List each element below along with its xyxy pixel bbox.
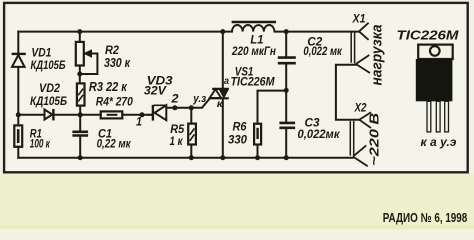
resistor R5 — [188, 124, 196, 145]
capacitor C3 — [279, 123, 295, 128]
wire R6 feed — [258, 91, 287, 124]
potentiometer R2 — [76, 42, 92, 66]
svg-text:330: 330 — [228, 133, 247, 147]
diode VD2 — [45, 109, 54, 120]
svg-text:VD2: VD2 — [39, 81, 60, 95]
svg-text:32V: 32V — [144, 84, 167, 98]
svg-text:0,022 мк: 0,022 мк — [303, 44, 342, 58]
wire top rail right section — [275, 31, 359, 33]
wire C2 to C3 column — [285, 64, 287, 122]
wire left column R1 to bottom rail — [17, 147, 19, 158]
package lead anode — [436, 101, 440, 132]
mains twin line — [350, 121, 353, 156]
junction top rail triac — [220, 29, 225, 34]
wire R5 drop — [190, 108, 192, 158]
junction middle rail left — [16, 112, 21, 117]
svg-text:к: к — [217, 98, 224, 110]
capacitor C1 — [72, 132, 88, 136]
junction bottom rail R5 — [189, 155, 194, 160]
svg-text:1 к: 1 к — [170, 134, 184, 148]
junction top rail C2 — [284, 29, 289, 34]
svg-text:330 к: 330 к — [104, 56, 131, 70]
svg-text:к а у.э: к а у.э — [421, 135, 457, 149]
wire R2 bottom to R3 — [79, 66, 81, 84]
svg-text:КД105Б: КД105Б — [31, 58, 66, 72]
label ~220 В — [367, 112, 382, 166]
svg-text:TIC226M: TIC226M — [397, 27, 460, 42]
wire R2 top lead — [79, 32, 81, 42]
wire left column upper — [17, 32, 19, 53]
wire R3 to middle rail — [79, 106, 81, 115]
capacitor C2 — [278, 58, 296, 64]
wire triac cathode — [222, 98, 224, 157]
resistor R6 — [254, 124, 261, 145]
svg-text:~220 В: ~220 В — [367, 112, 382, 166]
resistor R1 — [14, 125, 22, 146]
svg-text:РАДИО № 6, 1998: РАДИО № 6, 1998 — [383, 210, 468, 225]
svg-text:1: 1 — [136, 115, 142, 129]
label нагрузка — [370, 25, 386, 86]
package lead cathode — [427, 101, 431, 132]
svg-text:100 к: 100 к — [30, 137, 51, 151]
connector X2 — [359, 112, 371, 128]
wire load bracket — [336, 65, 359, 120]
wire C3 to bottom rail — [285, 129, 287, 158]
svg-text:a: a — [224, 75, 229, 87]
node 1 dot — [140, 112, 145, 117]
resistor R4 — [101, 111, 123, 118]
wire VD3 to gate junction — [166, 99, 209, 108]
wire top rail left section — [18, 31, 232, 33]
wire R2 wiper return — [80, 54, 98, 75]
svg-text:у.з: у.з — [192, 93, 206, 105]
svg-text:0,022мк: 0,022мк — [298, 127, 341, 141]
junction bottom rail C1 — [78, 155, 83, 160]
svg-text:КД105Б: КД105Б — [30, 94, 67, 108]
wire R6 to bottom rail — [257, 145, 259, 158]
connector X1 — [359, 23, 369, 40]
junction bottom rail cathode — [220, 155, 225, 160]
svg-text:0,22 мк: 0,22 мк — [97, 137, 132, 151]
inductor L1 — [232, 22, 276, 32]
svg-text:R6: R6 — [233, 120, 247, 134]
node 2 dot — [172, 105, 177, 110]
svg-text:нагрузка: нагрузка — [370, 25, 386, 86]
junction below C2 — [284, 88, 289, 93]
diac VD3 — [146, 105, 166, 121]
junction gate node — [189, 105, 194, 110]
svg-text:X2: X2 — [354, 100, 367, 114]
wire middle rail VD2 to R4 — [54, 114, 100, 116]
svg-text:TIC226M: TIC226M — [231, 74, 276, 88]
wire C2 column top — [285, 32, 287, 57]
junction middle rail C1 — [78, 112, 83, 117]
junction top rail R2 — [77, 29, 82, 34]
wire bottom rail — [18, 157, 352, 159]
wire left column VD1 to middle — [17, 67, 19, 126]
svg-text:X1: X1 — [352, 11, 366, 25]
junction wiper return — [77, 72, 82, 77]
wire C1 leads — [79, 115, 81, 158]
svg-text:R3 22 к: R3 22 к — [89, 80, 128, 94]
diode VD1 — [12, 54, 26, 67]
connector load fork — [356, 55, 370, 73]
junction bottom rail C3 — [284, 155, 289, 160]
connector mains fork — [353, 145, 368, 166]
package body — [416, 59, 453, 101]
svg-text:2: 2 — [170, 92, 178, 106]
wire middle rail R4 to VD3 — [122, 114, 153, 116]
package lead gate — [445, 101, 449, 132]
resistor R3 — [77, 83, 85, 105]
svg-text:R4* 270: R4* 270 — [96, 95, 133, 109]
package tab — [418, 45, 453, 59]
junction bottom rail R6 — [255, 155, 260, 160]
load twin line — [351, 32, 354, 64]
border frame — [4, 3, 468, 172]
wire triac anode — [222, 32, 224, 89]
svg-text:220 мкГн: 220 мкГн — [231, 44, 276, 58]
package mounting hole — [430, 46, 440, 56]
triac VS1 — [209, 89, 229, 98]
wire middle rail left — [18, 114, 44, 116]
